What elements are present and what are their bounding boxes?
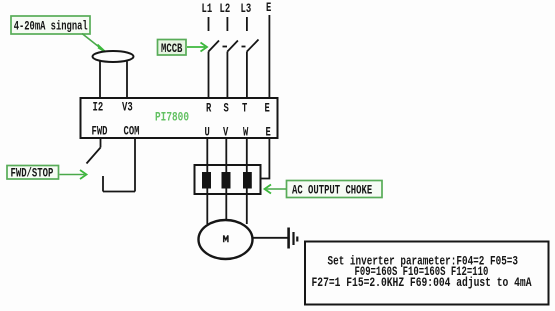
node L2 label (220, 2, 231, 16)
wire FWD stub below box (100, 138, 102, 148)
svg-text:E: E (265, 102, 270, 116)
svg-text:R: R (206, 102, 212, 116)
svg-text:L2: L2 (220, 2, 231, 16)
svg-text:I2: I2 (93, 101, 104, 115)
svg-text:L1: L1 (202, 2, 213, 16)
pin U (205, 126, 210, 140)
svg-text:FWD: FWD (92, 125, 108, 139)
ground symbol (289, 228, 298, 249)
breaker MCCB pole 2 lever (227, 41, 238, 52)
svg-text:AC OUTPUT CHOKE: AC OUTPUT CHOKE (292, 184, 372, 198)
breaker linkage dash 2 (242, 46, 246, 48)
svg-text:E: E (266, 1, 271, 15)
label box MCCB (158, 40, 187, 57)
svg-text:PI7800: PI7800 (155, 111, 189, 125)
motor M label (224, 235, 228, 242)
arrow FWD/STOP to switch (60, 170, 87, 179)
inverter U1 PI7800 body (81, 98, 278, 138)
label PI7800 (155, 111, 189, 125)
breaker MCCB pole 1 lever (209, 41, 220, 52)
wire S line (breaker to box) (226, 52, 228, 99)
svg-text:U: U (205, 126, 210, 140)
pin S (224, 102, 230, 116)
svg-text:MCCB: MCCB (161, 42, 183, 56)
wire switch lower contact (102, 176, 104, 192)
choke winding U (filled) (202, 172, 211, 189)
arrow MCCB to breaker (187, 43, 207, 52)
node L3 label (241, 2, 252, 16)
wire L2 stub (226, 17, 228, 31)
label box 4-20mA singnal (11, 16, 90, 34)
wire T line (breaker to box) (246, 52, 248, 99)
svg-text:FWD/STOP: FWD/STOP (11, 167, 54, 181)
svg-text:V: V (223, 126, 229, 140)
wire V (box to motor) (225, 138, 227, 221)
breaker MCCB pole 3 lever (247, 40, 259, 52)
svg-text:V3: V3 (122, 101, 133, 115)
wire switch to COM (bottom horizontal) (103, 191, 135, 193)
pin V3 (122, 101, 133, 115)
pin FWD (92, 125, 108, 139)
svg-text:S: S (224, 102, 230, 116)
svg-text:W: W (243, 126, 249, 140)
wire E to choke (down then left) (261, 138, 270, 179)
pin W (243, 126, 249, 140)
svg-text:4-20mA singnal: 4-20mA singnal (14, 20, 88, 34)
node E label (top) (266, 1, 271, 15)
wire L1 stub (208, 17, 210, 31)
wire L3 stub (246, 17, 248, 31)
breaker linkage dash 1 (223, 46, 228, 48)
wire COM drop (134, 138, 136, 192)
wire R line (breaker to box) (208, 52, 210, 99)
pin V (223, 126, 229, 140)
arrow AC OUTPUT CHOKE to choke box (265, 185, 287, 194)
svg-text:L3: L3 (241, 2, 252, 16)
wire W (box to motor) (246, 138, 248, 224)
motor M body (199, 220, 253, 259)
choke winding W (filled) (243, 172, 252, 189)
wire motor to ground (253, 237, 289, 239)
switch FWD/STOP lever (87, 148, 101, 164)
label box AC OUTPUT CHOKE (287, 181, 383, 198)
svg-text:E: E (266, 126, 271, 140)
svg-text:F27=1 F15=2.0KHZ F69:004 adj: F27=1 F15=2.0KHZ F69:004 adjust to 4mA (312, 276, 532, 290)
pin E (row 2) (266, 126, 271, 140)
wire potentiometer right leg to V3 (126, 62, 128, 99)
node L1 label (202, 2, 213, 16)
svg-text:T: T (242, 102, 248, 116)
svg-text:COM: COM (124, 125, 140, 139)
pin E (row 1) (265, 102, 270, 116)
pin T (242, 102, 248, 116)
pin R (206, 102, 212, 116)
pin I2 (93, 101, 104, 115)
wire E (top, straight to box) (268, 15, 270, 98)
choke box body (195, 165, 261, 194)
note box: inverter parameters (305, 242, 549, 305)
wire U (box to motor) (206, 138, 208, 224)
choke winding V (filled) (222, 172, 231, 189)
arrow 4-20mA to potentiometer (82, 34, 106, 53)
wire potentiometer left leg to I2 (99, 62, 101, 99)
potentiometer body (ellipse) (93, 51, 134, 62)
label box FWD/STOP (7, 166, 59, 181)
pin COM (124, 125, 140, 139)
